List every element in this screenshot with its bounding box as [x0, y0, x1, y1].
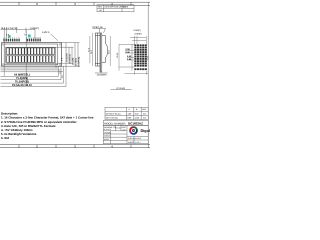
svg-text:4: 4: [10, 36, 11, 39]
svg-text:SCALE: SCALE: [135, 137, 142, 140]
svg-text:6. Std: 6. Std: [1, 136, 9, 140]
svg-text:7: 7: [16, 36, 17, 39]
svg-text:mm: mm: [123, 129, 126, 131]
svg-text:13.60MAX: 13.60MAX: [97, 73, 108, 76]
frame right border: [147, 2, 149, 148]
character blocks 16x2 (outlined cells): [7, 48, 55, 63]
svg-text:0.55(P): 0.55(P): [134, 29, 141, 32]
svg-text:1: 1: [3, 36, 4, 39]
left dims of grid: [119, 44, 135, 70]
svg-text:mm: mm: [143, 116, 147, 119]
svg-text:2: 2: [6, 36, 7, 39]
bottom dimension ladder: [1, 64, 67, 87]
module outline: [2, 43, 62, 67]
top dimension lines: [1, 28, 36, 39]
svg-text:±0.30: ±0.30: [116, 127, 120, 130]
dot grid 5x10: [134, 44, 147, 70]
svg-text:4-Ø2.5: 4-Ø2.5: [42, 31, 50, 34]
corner holes: [2, 44, 61, 66]
svg-text:36.0(PCB): 36.0(PCB): [77, 57, 80, 67]
pin number digits above pads: [3, 36, 41, 39]
side view left vertical dim: [92, 33, 94, 66]
logo: [130, 127, 137, 134]
svg-text:SHEET: SHEET: [128, 141, 135, 144]
revision table top right: [97, 5, 134, 12]
svg-text:15.80: 15.80: [116, 52, 119, 58]
svg-text:1.60(=P): 1.60(=P): [30, 27, 39, 30]
vertical extension lines through module: [25, 30, 27, 86]
svg-text:DC1602AZ: DC1602AZ: [128, 122, 143, 126]
main title block: [103, 125, 148, 143]
svg-text:13.00: 13.00: [135, 116, 140, 119]
svg-text:APPR: APPR: [104, 138, 110, 141]
right vertical dimension stack: [56, 43, 80, 67]
svg-text:5: 5: [12, 36, 13, 39]
zone digits: [36, 2, 113, 148]
svg-text:6: 6: [14, 36, 15, 39]
svg-text:DATE: DATE: [123, 6, 129, 9]
svg-text:8.50: 8.50: [135, 112, 139, 115]
svg-text:0.60(P): 0.60(P): [135, 32, 142, 35]
svg-text:16-1.0: 16-1.0: [1, 27, 8, 30]
svg-text:25.2(B): 25.2(B): [71, 58, 74, 65]
svg-text:REV: REV: [98, 6, 103, 9]
svg-text:WITHOUT B/L(A): WITHOUT B/L(A): [106, 112, 121, 115]
svg-text:9: 9: [26, 36, 27, 39]
svg-text:X.X ±0.3: X.X ±0.3: [104, 128, 111, 131]
svg-text:SIZE A4: SIZE A4: [128, 137, 135, 140]
pin pads: [3, 39, 40, 42]
svg-text:31.0(BZ): 31.0(BZ): [74, 58, 77, 67]
svg-text:2.54(=P): 2.54(=P): [8, 27, 17, 30]
svg-text:8.80: 8.80: [128, 116, 132, 119]
svg-text:3: 3: [8, 36, 9, 39]
svg-text:19.0(W/S): 19.0(W/S): [68, 54, 71, 64]
svg-text:mm: mm: [143, 112, 147, 115]
svg-text:DRAWN: DRAWN: [104, 131, 111, 134]
svg-text:8: 8: [18, 36, 19, 39]
svg-text:4.80: 4.80: [128, 112, 132, 115]
svg-text:CHECK: CHECK: [104, 135, 111, 138]
model row: [103, 121, 148, 126]
svg-text:P2.54x15=38.10: P2.54x15=38.10: [12, 84, 32, 87]
svg-text:WITH LED B/L: WITH LED B/L: [106, 116, 118, 119]
svg-text:1 OF 1: 1 OF 1: [135, 141, 141, 144]
svg-text:Digole: Digole: [141, 129, 151, 133]
upper table: [105, 107, 148, 119]
frame bottom band: [0, 144, 150, 146]
svg-text:16.0(VA): 16.0(VA): [65, 53, 68, 62]
svg-text:MODEL NUMBER:: MODEL NUMBER:: [104, 122, 126, 125]
side view right vertical dim: [109, 36, 111, 66]
bottom dim of grid: [125, 71, 149, 75]
frame top band: [0, 1, 150, 3]
svg-text:15: 15: [39, 36, 41, 39]
